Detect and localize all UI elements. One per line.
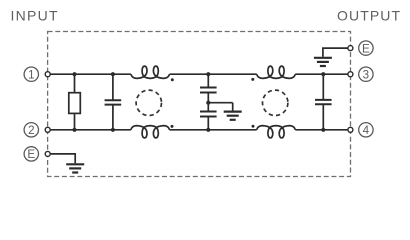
terminal E output (earth) [348, 41, 373, 55]
inductor L2 top winding (common-mode choke, line1) [257, 66, 296, 78]
junction CY/line1 [206, 72, 210, 76]
wire terminal E input to chassis ground [50, 154, 75, 163]
svg-text:OUTPUT: OUTPUT [337, 8, 401, 24]
wire line1 segment: choke L2 to terminal 3 [295, 73, 348, 75]
phase dot L2 top winding [251, 78, 254, 81]
inductor L1 top winding (common-mode choke, line1) [131, 66, 170, 78]
terminal 2 (input line N) [24, 123, 50, 137]
svg-text:3: 3 [363, 68, 369, 81]
junction CX1/line1 [111, 72, 115, 76]
terminal 4 (output line N) [348, 123, 373, 137]
terminal 1 (input line L) [24, 67, 50, 81]
inductor L1 bottom winding (common-mode choke, line2) [131, 126, 170, 138]
terminal 3 (output line L) [348, 67, 373, 81]
wire line2 segment: choke L1 to choke L2 [170, 129, 257, 131]
junction CX2/line1 [321, 72, 325, 76]
wire line1 segment: choke L1 to choke L2 [170, 73, 257, 75]
capacitor CX1 (input X-capacitor) [105, 74, 122, 130]
phase dot L1 bottom winding [171, 125, 174, 128]
ground (Y-capacitor midpoint) [224, 103, 242, 120]
core of choke L1 (dashed circle) [136, 90, 161, 115]
inductor L2 bottom winding (common-mode choke, line2) [257, 126, 296, 138]
capacitor CX2 (output X-capacitor) [315, 74, 332, 130]
junction CX2/line2 [321, 128, 325, 132]
svg-text:E: E [362, 42, 370, 55]
ground (input chassis earth) [66, 164, 84, 172]
svg-text:2: 2 [28, 124, 34, 137]
wire line1 segment: terminal1 to choke L1 [50, 73, 131, 75]
svg-text:1: 1 [28, 68, 34, 81]
junction resistor/line2 [72, 128, 76, 132]
ground (output chassis earth) [314, 58, 332, 66]
phase dot L2 bottom winding [252, 125, 255, 128]
label INPUT [11, 8, 59, 24]
capacitor CY1 (Y-capacitor, line1 to earth) [200, 74, 217, 103]
enclosure (dashed filter case) [48, 32, 351, 177]
wire CY midpoint to ground [208, 102, 232, 104]
wire terminal E output to chassis ground [323, 48, 348, 57]
phase dot L1 top winding [171, 78, 174, 81]
junction resistor/line1 [72, 72, 76, 76]
core of choke L2 (dashed circle) [263, 90, 288, 115]
junction CY/line2 [206, 128, 210, 132]
svg-text:INPUT: INPUT [11, 8, 59, 24]
resistor R1 (discharge resistor) [69, 74, 81, 130]
capacitor CY2 (Y-capacitor, line2 to earth) [200, 103, 217, 130]
wire line2 segment: terminal2 to choke L1 [50, 129, 131, 131]
svg-text:E: E [27, 148, 35, 161]
node CY midpoint junction [206, 101, 210, 105]
svg-text:4: 4 [363, 124, 370, 137]
wire line2 segment: choke L2 to terminal 4 [295, 129, 348, 131]
junction CX1/line2 [111, 128, 115, 132]
label OUTPUT [337, 8, 401, 24]
terminal E input (earth) [24, 147, 50, 161]
